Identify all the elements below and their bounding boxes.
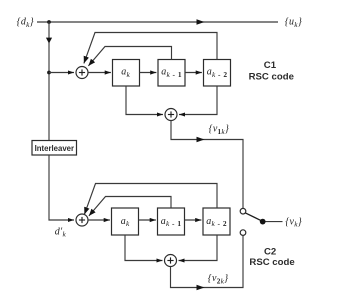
wire: inner feedback a_k-1 to C1 adder bbox=[88, 47, 171, 66]
switch upper contact bbox=[240, 208, 246, 214]
summer U1: C1 input adder bbox=[76, 67, 88, 79]
svg-text:{vk}: {vk} bbox=[285, 216, 302, 228]
wire: a_k-1 to a_k-2 (C2) bbox=[185, 219, 202, 221]
node: junction to C1 adder bbox=[47, 71, 51, 75]
switch lower contact bbox=[240, 230, 246, 236]
label {d_k} input bbox=[17, 17, 34, 29]
wire: a_k bottom to C2 output adder bbox=[125, 235, 163, 261]
summer U4: C2 output adder bbox=[165, 255, 177, 267]
wire: interleaved d'_k to C2 adder bbox=[49, 155, 74, 220]
wire: a_k-2 bottom to C2 output adder bbox=[179, 235, 218, 261]
svg-text:{dk}: {dk} bbox=[17, 17, 34, 29]
svg-text:{uk}: {uk} bbox=[285, 17, 302, 29]
switch pole dot bbox=[260, 219, 266, 225]
svg-text:RSC code: RSC code bbox=[249, 257, 294, 268]
label C1 RSC code bbox=[249, 60, 294, 82]
interleaver block bbox=[32, 141, 77, 156]
wire: a_k to a_k-1 (C1) bbox=[140, 72, 157, 74]
svg-text:C2: C2 bbox=[264, 247, 276, 258]
wire: a_k-1 to a_k-2 (C1) bbox=[185, 72, 202, 74]
node: junction on systematic line bbox=[47, 20, 51, 24]
wire: a_k bottom to C1 output adder bbox=[126, 86, 163, 115]
svg-text:RSC code: RSC code bbox=[249, 71, 294, 82]
wire: a_k-2 bottom to C1 output adder bbox=[179, 86, 217, 115]
wire: inner feedback a_k-1 to C2 adder bbox=[89, 197, 171, 216]
switch lever arm bbox=[245, 213, 262, 221]
wire: to C1 input adder bbox=[49, 72, 74, 74]
wire: v2k from adder to switch lower contact bbox=[171, 236, 244, 291]
label {v_1k} bbox=[209, 123, 230, 136]
label C2 RSC code bbox=[249, 247, 294, 269]
label {u_k} output bbox=[285, 17, 302, 29]
summer U2: C1 output adder bbox=[165, 109, 177, 121]
svg-text:Interleaver: Interleaver bbox=[35, 144, 74, 153]
wire: switch to v_k bbox=[266, 221, 283, 223]
register a_k (C2) bbox=[112, 208, 139, 235]
wire: v1k from adder to switch upper contact bbox=[171, 121, 243, 209]
wire: outer feedback a_k-2 to C1 adder bbox=[84, 33, 217, 64]
label d'_k bbox=[55, 226, 67, 238]
wire: adder to register a_k (C1) bbox=[88, 72, 111, 74]
wire: outer feedback a_k-2 to C2 adder bbox=[84, 184, 217, 215]
summer U3: C2 input adder bbox=[76, 214, 88, 226]
register a_k (C1) bbox=[113, 60, 140, 87]
register a_k-2 (C2) bbox=[203, 208, 230, 235]
register a_k-1 (C2) bbox=[158, 208, 185, 235]
label {v_2k} bbox=[208, 273, 229, 286]
label {v_k} bbox=[285, 216, 302, 228]
register a_k-1 (C1) bbox=[158, 60, 185, 87]
wire: vertical d_k feed down to interleaver bbox=[46, 22, 52, 141]
register a_k-2 (C1) bbox=[204, 60, 231, 87]
wire: a_k to a_k-1 (C2) bbox=[139, 219, 156, 221]
wire: systematic line d_k to u_k bbox=[37, 19, 278, 25]
svg-text:C1: C1 bbox=[264, 60, 277, 71]
wire: adder to register a_k (C2) bbox=[88, 219, 110, 221]
